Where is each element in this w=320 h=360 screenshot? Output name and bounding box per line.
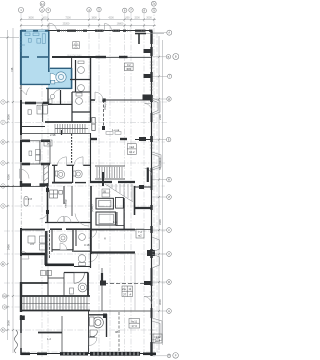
corridor wall y122 and stairs A [21,122,91,134]
toilets cluster [59,234,86,266]
bathroom door fan bottom [89,338,97,346]
svg-text:3600: 3600 [158,299,162,305]
svg-text:к: к [74,44,75,46]
svg-text:Д: Д [168,97,170,101]
right dimension ticks [158,56,160,312]
highlighted apartment bathroom fill [48,68,72,89]
svg-text:4200: 4200 [7,174,11,180]
grid bubbles right column [166,30,179,358]
door arc living room [95,92,103,100]
svg-text:2.8: 2.8 [28,197,32,201]
svg-text:05: 05 [103,190,107,194]
break squiggle bottom left [15,330,18,353]
svg-text:30.8: 30.8 [155,339,161,343]
svg-text:3.6: 3.6 [30,242,34,246]
bottom band hatch slits [64,352,138,355]
svg-text:17.6: 17.6 [131,324,137,328]
grid bubbles left column [1,100,7,332]
right bubble connector stubs [152,33,168,356]
hatched pilaster x44-49 [44,165,49,186]
bay 1 [152,98,160,115]
bathroom block walls under apartment 2 [21,57,91,122]
svg-text:Е: Е [168,138,170,142]
bay 2 [152,152,161,170]
left flat door arc [21,251,29,259]
stair well label box [102,189,110,197]
small box left flat [28,236,46,250]
stairs C diagonal [105,184,133,202]
svg-text:16800: 16800 [117,22,124,25]
svg-text:25200: 25200 [63,22,70,25]
bay 4 [152,318,162,343]
walls y282 [21,268,152,311]
top dimension chain lines [0,20,163,354]
svg-text:Ф: Ф [2,140,4,144]
tiny room number texts [28,128,124,341]
svg-text:Ц: Ц [2,184,4,188]
svg-text:А: А [168,31,170,35]
bay3 door arc [144,297,152,305]
label box flat 11 bottom [129,319,140,329]
right wall window ticks [150,62,153,334]
heavy partition walls left/mid lower [21,254,74,265]
svg-text:№: № [123,288,126,291]
svg-text:5400: 5400 [7,244,11,250]
svg-text:3600: 3600 [7,114,11,120]
svg-text:Ч: Ч [2,204,4,208]
upper flat small rooms x48-72 y88-104 [48,90,72,104]
flat tag box top [73,42,80,49]
hatched wall x46 [45,231,48,265]
svg-text:Р: Р [175,353,177,357]
svg-text:3000: 3000 [7,320,11,326]
svg-text:№11: №11 [131,319,137,323]
svg-text:746: 746 [10,67,14,72]
living room wall y100 right part [91,98,152,130]
living room low cabinets [106,132,121,135]
bay 3 [152,237,160,268]
stairs D hatch [21,297,90,310]
svg-text:т: т [77,44,78,46]
small lobby boxes [24,190,62,206]
toilets pair [55,170,82,178]
main cross wall y183-186 [0,182,152,187]
svg-text:1800: 1800 [91,16,97,19]
svg-text:1500 750 1500: 1500 750 1500 [67,55,82,57]
small sink fixture [49,94,55,103]
loggia door arc to corridor [40,211,48,219]
svg-text:Л: Л [168,252,170,256]
furniture marks inside highlighted room [22,33,45,45]
highlighted apartment room fill [21,30,50,85]
bathroom cluster y230-268 [50,230,136,268]
label left mid [44,140,52,146]
svg-text:1.2: 1.2 [47,337,51,341]
tambour door arcs pair [58,216,64,222]
svg-text:П: П [168,354,170,358]
svg-text:10.2: 10.2 [129,150,135,154]
corridor walls x47 and tambour [21,183,152,230]
S= label right [125,63,134,71]
lower rooms walls [38,311,119,353]
right exterior wall [151,31,153,356]
svg-text:м2: м2 [138,234,142,238]
svg-text:Н: Н [168,309,170,313]
stairs B [97,167,122,178]
svg-text:1.9: 1.9 [113,220,117,224]
big toilet bottom [90,317,104,337]
svg-text:М: М [168,280,170,284]
svg-text:5670/2400: 5670/2400 [158,157,162,170]
svg-text:1610: 1610 [42,16,48,19]
washroom fan and toilet [74,273,84,283]
svg-text:3.18: 3.18 [84,243,90,247]
cluster door fan [60,243,67,250]
svg-text:Б: Б [168,55,170,59]
svg-text:Ю: Ю [2,328,5,332]
svg-text:И: И [168,195,170,199]
highlighted apartment door fan [50,73,59,82]
svg-text:Х: Х [2,161,4,165]
entry door arcs on top wall [49,23,57,31]
svg-text:2000: 2000 [146,16,152,19]
left mid walls rows 140-164 [21,139,152,164]
wall y229.5 right extension [135,229,152,231]
top wall window ticks [62,30,145,33]
svg-text:900: 900 [126,16,131,19]
top exterior wall run [48,30,153,32]
left dimension ticks [7,37,15,332]
vertical texts [7,67,163,326]
svg-text:4200: 4200 [108,16,114,19]
toilet fixtures mid bathrooms [76,61,85,104]
kitchen boxes above washroom [41,271,52,276]
door leaf diagonal left flat [19,88,30,96]
main stairs D band [21,253,152,311]
living room wardrobe [92,118,95,131]
label right 230 [136,229,144,238]
svg-text:№4: №4 [130,145,135,149]
svg-text:3600: 3600 [28,16,34,19]
svg-text:Э: Э [4,305,6,309]
highlighted apartment window ticks on top wall [20,30,45,51]
elevator / shaft boxes [91,186,135,254]
svg-text:Ф84: Ф84 [126,67,131,71]
1к label mid right [127,144,136,155]
loggia label boxes [29,150,41,161]
dimension ticks top [20,19,155,27]
svg-text:1-к кв: 1-к кв [112,128,120,132]
svg-text:(2)кв-т: (2)кв-т [90,203,94,212]
label right 335 [153,334,162,343]
svg-text:0.2: 0.2 [127,63,131,67]
door fan upper flat [53,90,60,97]
right pilaster y168 [147,168,149,183]
big corner door arc [75,214,89,227]
top right corner walls [135,33,164,352]
svg-text:7200: 7200 [65,16,71,19]
left wall door arc y169-179 [20,169,30,179]
svg-text:3200: 3200 [134,16,140,19]
svg-text:В: В [175,55,177,59]
grid axis dash-dot lines [4,7,167,357]
svg-text:2400: 2400 [158,114,162,120]
column blobs on x47 wall [46,188,49,214]
bay1 door arc [145,104,152,111]
left exterior wall [20,85,25,355]
svg-text:Общ.пл: Общ.пл [103,100,107,110]
bay2 door arc [145,169,152,176]
svg-text:2.98: 2.98 [50,133,56,137]
svg-text:08: 08 [115,330,119,334]
kitchen stove boxes left flat [28,105,47,114]
toilet in highlighted bathroom [51,72,66,84]
dimension numbers top [28,16,152,25]
horizontal wall y57 mid [52,56,152,58]
svg-text:3300: 3300 [158,219,162,225]
window gap overlay on blue top wall [26,30,45,32]
bottom exterior wall [21,353,156,355]
label right 288 [122,286,133,297]
bathroom pair door arcs [57,157,66,166]
svg-text:тамбур: тамбур [64,199,68,208]
lower bathrooms pair walls [52,130,91,183]
stairs A hatch [55,124,85,133]
right wall column blobs [139,49,155,285]
grid bubbles top row [18,1,156,13]
highlighted apartment walls [21,30,72,89]
